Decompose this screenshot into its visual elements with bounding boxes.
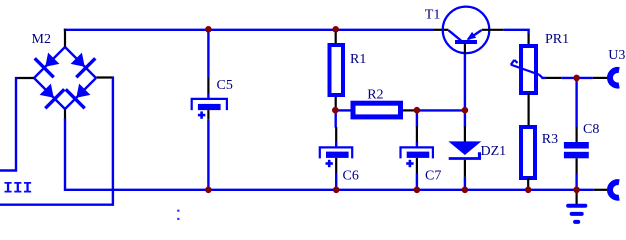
- wire DZ1 to rail: [464, 177, 466, 190]
- wire C6 to rail: [335, 174, 337, 190]
- wire DZ1 upper lead: [464, 126, 466, 142]
- wire to U3 bottom terminal: [594, 189, 608, 191]
- svg-text:C6: C6: [343, 169, 359, 184]
- svg-text:C5: C5: [217, 78, 233, 93]
- wire PR1 bottom lead to R3: [527, 93, 529, 127]
- wire bridge right lead: [97, 76, 115, 78]
- wire C7 lower lead: [416, 158, 418, 174]
- wire C5 lower lead: [207, 110, 209, 120]
- capacitor C5: [192, 94, 227, 119]
- wire PR1 wiper: [542, 77, 546, 79]
- wire bridge top lead: [64, 29, 66, 47]
- junction dot rail DZ1: [462, 187, 469, 194]
- wire bridge left lead: [15, 77, 34, 79]
- junction dot rail R3: [525, 187, 532, 194]
- junction dot base node: [462, 107, 469, 114]
- wire bottom rail DC-: [65, 119, 594, 190]
- wire AC input left: [0, 77, 16, 170]
- diode M2-D2: [71, 53, 96, 78]
- wire node R2-DZ1: [417, 109, 465, 111]
- svg-text:M2: M2: [32, 32, 51, 47]
- wire R2 right lead: [403, 109, 417, 111]
- svg-text:T1: T1: [425, 8, 441, 23]
- wire bridge arm bottom-left: [34, 78, 65, 109]
- potentiometer PR1: [511, 46, 543, 93]
- wire R2 left lead: [335, 109, 351, 111]
- wire wiper black segment: [546, 77, 561, 79]
- svg-text:C7: C7: [425, 169, 441, 184]
- capacitor C7: [401, 142, 433, 167]
- junction dot R1-R2: [332, 107, 339, 114]
- bridge rectifier M2: [34, 47, 96, 109]
- wire C6 lower lead: [335, 158, 337, 174]
- wire T1 to PR1: [503, 30, 528, 35]
- wire ground stub: [575, 190, 577, 205]
- wire T1 base to node: [464, 54, 466, 127]
- wire C7 upper lead: [416, 126, 418, 142]
- wire R1 junction to C6: [335, 110, 337, 127]
- svg-text:III: III: [3, 180, 32, 198]
- wire C5 lower: [207, 120, 209, 190]
- connector U3 bottom terminal: [610, 182, 619, 198]
- wire C5 upper lead: [207, 78, 209, 95]
- svg-text:R1: R1: [350, 52, 366, 67]
- ground: [568, 206, 585, 222]
- junction dot rail C7: [414, 187, 421, 194]
- wire wiper to junction: [561, 77, 593, 79]
- wire C7 upper: [416, 110, 418, 127]
- wire R1 top lead: [335, 29, 337, 44]
- junction dot wiper-C8: [573, 75, 580, 82]
- wire PR1 top lead: [527, 34, 529, 46]
- zener diode DZ1: [448, 141, 481, 160]
- junction dot R2-C7: [414, 107, 421, 114]
- capacitor C6: [320, 142, 352, 167]
- svg-text:R3: R3: [542, 132, 558, 147]
- connector U3 top terminal: [610, 70, 619, 86]
- svg-text:DZ1: DZ1: [481, 144, 507, 159]
- wire to U3 top terminal: [593, 77, 608, 79]
- wire AC input right: [0, 77, 113, 205]
- svg-text:PR1: PR1: [545, 32, 569, 47]
- capacitor C8: [564, 142, 589, 158]
- junction dot top rail C5: [205, 26, 212, 33]
- wire R1 bottom lead: [335, 97, 337, 110]
- wire T1 right lead: [482, 29, 504, 31]
- svg-text:C8: C8: [583, 122, 599, 137]
- wire DZ1 lower lead: [464, 160, 466, 177]
- junction dot rail ground: [573, 187, 580, 194]
- wire C8 upper lead: [575, 127, 577, 143]
- wire R3 bottom lead: [527, 178, 529, 190]
- wire bridge arm top-right: [65, 47, 96, 78]
- svg-text:U3: U3: [608, 48, 625, 63]
- resistor R2: [353, 103, 401, 117]
- svg-text:R2: R2: [367, 88, 383, 103]
- resistor R1: [330, 45, 344, 95]
- wire bridge arm bottom-right: [65, 78, 96, 109]
- wire C8 lower lead: [575, 158, 577, 174]
- wire C6 upper lead: [335, 127, 337, 142]
- stray mark colon: [177, 210, 179, 212]
- wire C5 upper: [207, 30, 209, 78]
- wire bridge arm top-left: [34, 47, 65, 78]
- transistor T1: [443, 7, 490, 54]
- diode M2-D1: [35, 53, 60, 78]
- resistor R3: [521, 127, 535, 178]
- wire T1 base lead: [464, 44, 466, 54]
- junction dot top rail R1: [332, 26, 339, 33]
- wire T1 left lead: [434, 29, 449, 31]
- junction dot rail C6: [333, 187, 340, 194]
- wire C8 to rail: [575, 174, 577, 190]
- wire top rail DC+: [64, 29, 434, 31]
- wire bridge bottom lead: [64, 109, 66, 120]
- wire C7 to rail: [416, 174, 418, 190]
- diode M2-D4: [66, 84, 91, 109]
- diode M2-D3: [40, 84, 65, 109]
- wire C8 upper: [575, 78, 577, 127]
- junction dot rail C5: [205, 187, 212, 194]
